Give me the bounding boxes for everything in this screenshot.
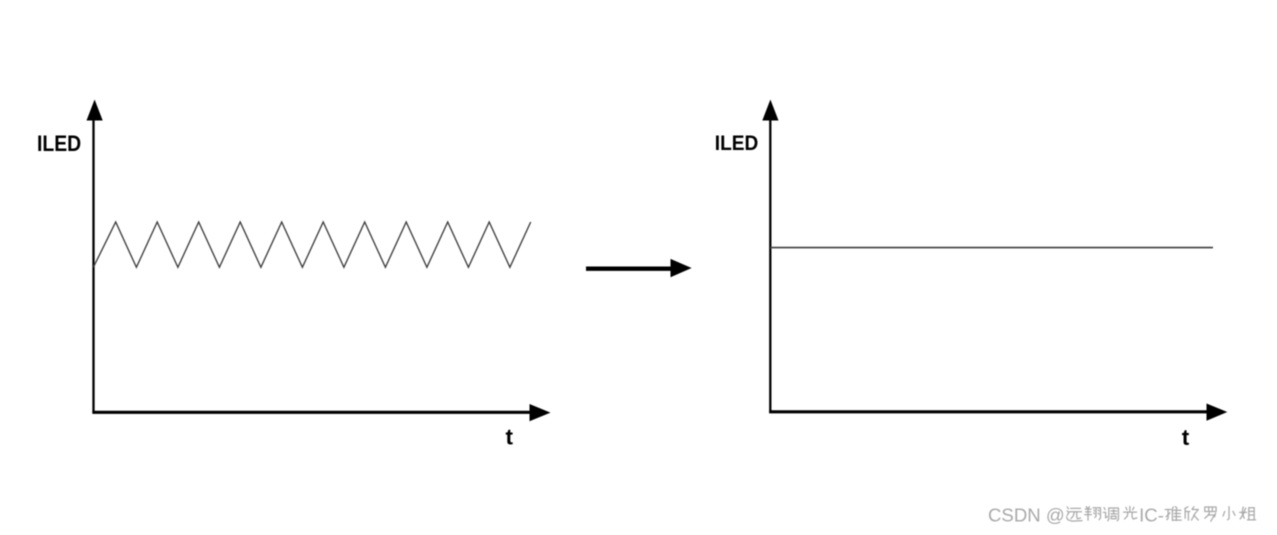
svg-text:ILED: ILED bbox=[37, 131, 81, 156]
svg-text:CSDN @: CSDN @ bbox=[988, 505, 1065, 526]
svg-text:IC-: IC- bbox=[1139, 505, 1164, 526]
svg-text:ILED: ILED bbox=[715, 131, 759, 155]
svg-text:t: t bbox=[1182, 425, 1190, 450]
svg-text:t: t bbox=[506, 424, 514, 449]
